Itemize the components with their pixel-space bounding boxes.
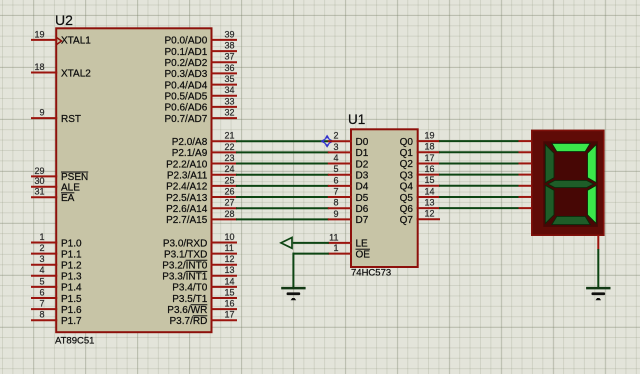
U2 pin 22 (P2.1/A9) xyxy=(172,142,237,159)
svg-text:24: 24 xyxy=(225,164,235,174)
svg-text:18: 18 xyxy=(425,142,435,152)
U1 pin 9 (D7) xyxy=(328,209,369,226)
svg-text:D2: D2 xyxy=(356,159,369,170)
display pin c xyxy=(519,162,532,164)
display pin g xyxy=(519,207,532,209)
svg-text:5: 5 xyxy=(333,164,338,174)
U2 pin 34 (P0.5/AD5) xyxy=(164,85,237,102)
U2 pin 38 (P0.1/AD1) xyxy=(164,40,237,57)
wire U1 Q0 to display segment a xyxy=(439,140,519,142)
svg-text:P1.6: P1.6 xyxy=(61,305,82,316)
svg-text:P2.4/A12: P2.4/A12 xyxy=(166,182,208,193)
svg-text:12: 12 xyxy=(425,209,435,219)
display segment c (lit) xyxy=(588,185,597,223)
svg-text:16: 16 xyxy=(225,299,235,309)
svg-text:19: 19 xyxy=(34,29,44,39)
svg-text:17: 17 xyxy=(425,153,435,163)
U2 pin 15 (P3.5/T1) xyxy=(172,287,237,304)
svg-text:P3.3/INT1: P3.3/INT1 xyxy=(162,272,207,283)
svg-text:16: 16 xyxy=(425,164,435,174)
U1 pin 8 (D6) xyxy=(328,198,369,215)
svg-text:P3.1/TXD: P3.1/TXD xyxy=(164,249,207,260)
wire P2.2/A10 to U1 D2 xyxy=(236,163,329,165)
U1 pin 18 (Q1) xyxy=(400,142,440,159)
svg-text:8: 8 xyxy=(39,310,44,320)
display pin f xyxy=(519,196,532,198)
svg-text:P2.1/A9: P2.1/A9 xyxy=(172,148,208,159)
svg-text:38: 38 xyxy=(225,40,235,50)
display segment e (off) xyxy=(545,185,554,223)
display segment g (off) xyxy=(548,180,594,187)
U2 pin 3 (P1.2) xyxy=(31,254,82,271)
wire U1 Q6 to display segment g xyxy=(439,207,519,209)
display pin a xyxy=(519,140,532,142)
U2 pin 9 (RST) xyxy=(31,108,81,125)
display segment d (off) xyxy=(552,216,590,224)
svg-text:Q5: Q5 xyxy=(400,193,414,204)
clock marker on XTAL1 xyxy=(56,37,61,44)
U2 pin 12 (P3.2/INT0) xyxy=(162,254,237,271)
svg-text:P2.6/A14: P2.6/A14 xyxy=(166,204,208,215)
U2 pin 2 (P1.1) xyxy=(31,243,82,260)
svg-text:2: 2 xyxy=(39,243,44,253)
U2 pin 5 (P1.4) xyxy=(31,276,82,293)
wire U1 OE left segment xyxy=(293,253,329,255)
svg-text:XTAL1: XTAL1 xyxy=(61,36,91,47)
display pin e xyxy=(519,185,532,187)
svg-text:1: 1 xyxy=(39,232,44,242)
svg-text:31: 31 xyxy=(34,187,44,197)
U2 pin 18 (XTAL2) xyxy=(31,62,91,79)
svg-text:PSEN: PSEN xyxy=(61,172,88,183)
svg-text:P3.4/T0: P3.4/T0 xyxy=(172,283,207,294)
svg-text:P2.5/A13: P2.5/A13 xyxy=(166,193,208,204)
U2 pin 11 (P3.1/TXD) xyxy=(164,243,237,260)
wire P2.7/A15 to U1 D7 xyxy=(236,218,329,220)
U2 pin 25 (P2.4/A12) xyxy=(166,175,237,192)
display pin d xyxy=(519,174,532,176)
svg-text:Q6: Q6 xyxy=(400,204,414,215)
svg-text:7: 7 xyxy=(39,299,44,309)
U2 pin 21 (P2.0/A8) xyxy=(172,131,237,148)
U2 reference label xyxy=(55,12,73,28)
svg-text:35: 35 xyxy=(225,74,235,84)
wire OE down to ground xyxy=(292,253,294,288)
wire display common to ground xyxy=(597,249,599,287)
U1 pin 17 (Q2) xyxy=(400,153,440,170)
svg-text:28: 28 xyxy=(225,209,235,219)
svg-text:D3: D3 xyxy=(356,171,369,182)
svg-text:2: 2 xyxy=(333,131,338,141)
U1 pin 3 (D1) xyxy=(328,142,369,159)
wire P2.5/A13 to U1 D5 xyxy=(236,196,329,198)
svg-text:D0: D0 xyxy=(356,137,369,148)
svg-text:21: 21 xyxy=(225,131,235,141)
svg-text:P1.1: P1.1 xyxy=(61,249,82,260)
svg-text:Q7: Q7 xyxy=(400,215,414,226)
svg-text:34: 34 xyxy=(225,85,235,95)
svg-text:9: 9 xyxy=(333,209,338,219)
svg-text:EA: EA xyxy=(61,193,75,204)
U2 pin 8 (P1.7) xyxy=(31,310,82,327)
svg-text:15: 15 xyxy=(225,287,235,297)
svg-text:Q1: Q1 xyxy=(400,148,414,159)
svg-text:P2.0/A8: P2.0/A8 xyxy=(172,137,208,148)
svg-text:P0.3/AD3: P0.3/AD3 xyxy=(164,69,207,80)
svg-text:27: 27 xyxy=(225,198,235,208)
wire P2.6/A14 to U1 D6 xyxy=(236,207,329,209)
svg-text:18: 18 xyxy=(34,62,44,72)
wire U1 Q2 to display segment c xyxy=(439,162,519,164)
svg-text:6: 6 xyxy=(39,287,44,297)
U2 pin 7 (P1.6) xyxy=(31,299,82,316)
svg-text:3: 3 xyxy=(333,142,338,152)
svg-text:25: 25 xyxy=(225,175,235,185)
wire P2.0/A8 to U1 D0 xyxy=(236,140,329,142)
U1 pin 7 (D5) xyxy=(328,186,369,203)
display segment f (off) xyxy=(545,145,554,183)
U2 pin 14 (P3.4/T0) xyxy=(172,276,237,293)
U2 pin 1 (P1.0) xyxy=(31,232,82,249)
svg-text:10: 10 xyxy=(225,232,235,242)
input terminal arrow on LE xyxy=(281,238,292,249)
svg-text:30: 30 xyxy=(34,176,44,186)
svg-text:17: 17 xyxy=(225,310,235,320)
display segment b (lit) xyxy=(588,145,597,183)
svg-text:U1: U1 xyxy=(348,112,365,127)
svg-text:P1.3: P1.3 xyxy=(61,272,82,283)
U2 pin 13 (P3.3/INT1) xyxy=(162,265,237,282)
svg-text:P3.6/WR: P3.6/WR xyxy=(167,305,207,316)
svg-text:3: 3 xyxy=(39,254,44,264)
svg-text:P0.0/AD0: P0.0/AD0 xyxy=(164,36,207,47)
svg-text:D1: D1 xyxy=(356,148,369,159)
U1 pin 19 (Q0) xyxy=(400,131,440,148)
svg-text:D4: D4 xyxy=(356,182,369,193)
svg-text:P3.7/RD: P3.7/RD xyxy=(170,316,208,327)
U1 pin 6 (D4) xyxy=(328,175,369,192)
U2 pin 39 (P0.0/AD0) xyxy=(164,29,237,46)
U2 pin 37 (P0.2/AD2) xyxy=(164,52,237,69)
svg-text:P2.7/A15: P2.7/A15 xyxy=(166,215,208,226)
svg-text:P1.7: P1.7 xyxy=(61,316,82,327)
display common pin (bottom) xyxy=(597,236,599,250)
svg-text:11: 11 xyxy=(329,232,338,242)
U1 pin 11 (LE) xyxy=(328,232,368,249)
svg-text:P0.5/AD5: P0.5/AD5 xyxy=(164,92,207,103)
svg-text:Q0: Q0 xyxy=(400,137,414,148)
U1 pin 5 (D3) xyxy=(328,164,369,181)
wire P2.1/A9 to U1 D1 xyxy=(236,151,329,153)
svg-text:P2.2/A10: P2.2/A10 xyxy=(166,159,208,170)
svg-text:D7: D7 xyxy=(356,215,369,226)
IC U1 74HC573 body xyxy=(351,129,418,267)
svg-text:1: 1 xyxy=(333,243,338,253)
svg-text:P0.4/AD4: P0.4/AD4 xyxy=(164,80,207,91)
svg-text:15: 15 xyxy=(425,175,435,185)
svg-text:19: 19 xyxy=(425,131,435,141)
svg-text:OE: OE xyxy=(356,249,371,260)
U2 value label AT89C51 xyxy=(55,335,94,346)
svg-text:7: 7 xyxy=(333,186,338,196)
svg-text:P0.7/AD7: P0.7/AD7 xyxy=(164,114,207,125)
svg-text:P1.0: P1.0 xyxy=(61,238,82,249)
U2 pin 27 (P2.6/A14) xyxy=(166,198,237,215)
U2 pin 4 (P1.3) xyxy=(31,265,82,282)
svg-text:P3.2/INT0: P3.2/INT0 xyxy=(162,261,207,272)
ground symbol (OE) xyxy=(281,288,305,300)
U2 pin 26 (P2.5/A13) xyxy=(166,186,237,203)
U2 pin 31 (EA) xyxy=(31,187,75,204)
U2 pin 30 (ALE) xyxy=(31,176,80,193)
svg-text:33: 33 xyxy=(225,96,235,106)
U2 pin 35 (P0.4/AD4) xyxy=(164,74,237,91)
svg-text:Q3: Q3 xyxy=(400,170,414,181)
svg-text:Q4: Q4 xyxy=(400,182,414,193)
svg-text:39: 39 xyxy=(225,29,235,39)
svg-text:AT89C51: AT89C51 xyxy=(55,335,94,346)
svg-text:Q2: Q2 xyxy=(400,159,414,170)
svg-text:P0.2/AD2: P0.2/AD2 xyxy=(164,58,207,69)
wire U1 Q4 to display segment e xyxy=(439,185,519,187)
blue node marker at U1 pin 2 xyxy=(321,135,334,148)
U2 pin 6 (P1.5) xyxy=(31,287,82,304)
U2 pin 10 (P3.0/RXD) xyxy=(163,232,237,249)
svg-text:P0.1/AD1: P0.1/AD1 xyxy=(164,47,207,58)
svg-text:13: 13 xyxy=(425,198,435,208)
svg-text:14: 14 xyxy=(425,186,435,196)
svg-text:13: 13 xyxy=(225,265,235,275)
wire P2.4/A12 to U1 D4 xyxy=(236,185,329,187)
IC U2 AT89C51 body xyxy=(56,28,211,332)
svg-text:22: 22 xyxy=(225,142,235,152)
svg-text:74HC573: 74HC573 xyxy=(351,267,391,278)
svg-text:6: 6 xyxy=(333,175,338,185)
U1 pin 4 (D2) xyxy=(328,153,369,170)
U2 pin 23 (P2.2/A10) xyxy=(166,153,237,170)
U2 pin 16 (P3.6/WR) xyxy=(167,299,237,316)
svg-text:32: 32 xyxy=(225,107,235,117)
svg-text:36: 36 xyxy=(225,63,235,73)
U1 reference label xyxy=(348,112,365,127)
svg-text:4: 4 xyxy=(39,265,44,275)
svg-text:ALE: ALE xyxy=(61,183,80,194)
svg-text:P1.5: P1.5 xyxy=(61,294,82,305)
U1 pin 14 (Q5) xyxy=(400,186,440,203)
svg-text:U2: U2 xyxy=(55,12,73,28)
U1 pin 2 (D0) xyxy=(328,131,369,148)
U2 pin 29 (PSEN) xyxy=(31,166,88,183)
svg-text:29: 29 xyxy=(34,166,44,176)
svg-text:5: 5 xyxy=(39,276,44,286)
svg-text:P3.0/RXD: P3.0/RXD xyxy=(163,238,207,249)
U1 pin 13 (Q6) xyxy=(400,198,440,215)
svg-text:P1.2: P1.2 xyxy=(61,261,82,272)
svg-text:26: 26 xyxy=(225,186,235,196)
wire U1 Q3 to display segment d xyxy=(439,174,519,176)
wire U1 Q1 to display segment b xyxy=(439,151,519,153)
svg-text:8: 8 xyxy=(333,198,338,208)
wire P2.3/A11 to U1 D3 xyxy=(236,174,329,176)
svg-text:14: 14 xyxy=(225,276,235,286)
svg-text:23: 23 xyxy=(225,153,235,163)
svg-text:37: 37 xyxy=(225,52,235,62)
display pin b xyxy=(519,151,532,153)
svg-text:11: 11 xyxy=(225,243,234,253)
svg-text:XTAL2: XTAL2 xyxy=(61,68,91,79)
wire LE terminal to U1 LE xyxy=(293,242,329,244)
U1 pin 12 (Q7) xyxy=(400,209,440,226)
wire U1 Q5 to display segment f xyxy=(439,196,519,198)
U2 pin 17 (P3.7/RD) xyxy=(170,310,237,327)
U1 pin 1 (OE) xyxy=(328,243,370,260)
svg-text:4: 4 xyxy=(333,153,338,163)
svg-text:LE: LE xyxy=(356,239,369,250)
ground symbol (display) xyxy=(586,288,610,300)
svg-text:P3.5/T1: P3.5/T1 xyxy=(172,294,207,305)
U1 pin 15 (Q4) xyxy=(400,175,440,192)
U2 pin 36 (P0.3/AD3) xyxy=(164,63,237,80)
U1 value label 74HC573 xyxy=(351,267,391,278)
svg-text:P1.4: P1.4 xyxy=(61,283,82,294)
svg-text:P0.6/AD6: P0.6/AD6 xyxy=(164,103,207,114)
U2 pin 24 (P2.3/A11) xyxy=(167,164,237,181)
U2 pin 19 (XTAL1) xyxy=(31,29,91,46)
svg-text:D5: D5 xyxy=(356,193,369,204)
svg-text:D6: D6 xyxy=(356,204,369,215)
svg-text:RST: RST xyxy=(61,114,81,125)
svg-text:P2.3/A11: P2.3/A11 xyxy=(167,171,208,182)
svg-text:9: 9 xyxy=(39,108,44,118)
U2 pin 28 (P2.7/A15) xyxy=(166,209,237,226)
7-segment display body xyxy=(532,130,604,235)
U2 pin 33 (P0.6/AD6) xyxy=(164,96,237,113)
svg-text:12: 12 xyxy=(225,254,235,264)
U1 pin 16 (Q3) xyxy=(400,164,440,181)
display segment a (lit) xyxy=(552,143,590,151)
U2 pin 32 (P0.7/AD7) xyxy=(164,107,237,124)
